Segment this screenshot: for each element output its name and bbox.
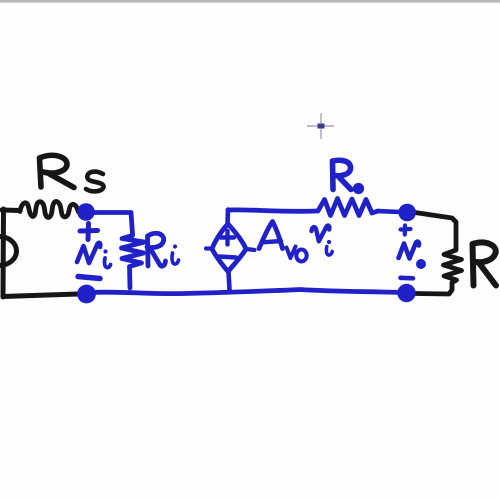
wire output node to load R	[415, 213, 456, 250]
wire bottom rail	[90, 290, 402, 294]
wire input node to Ri	[88, 213, 133, 235]
node input bottom (junction source / vi- / rail)	[77, 285, 96, 304]
label Ri subscript "i"	[172, 244, 178, 264]
node output top (junction Ro / vo+ / R load)	[398, 204, 416, 222]
node output bottom (junction rail / vo- / R load)	[397, 284, 415, 302]
resistor R load (vertical zigzag)	[444, 250, 462, 290]
wire input left vertical	[1, 209, 7, 297]
label vi minus sign	[78, 277, 100, 279]
label vo subscript dot	[416, 259, 426, 269]
wire input bottom (source to node)	[3, 294, 78, 297]
resistor Ro (horizontal zigzag)	[318, 199, 378, 216]
label vi "v"	[77, 243, 100, 263]
label Rs subscript "s"	[86, 172, 104, 192]
wire Ro to output node	[378, 211, 400, 212]
node input top (junction Rs / vi+ / Ri)	[77, 203, 95, 221]
wire diamond bottom stem	[229, 272, 230, 291]
label Avo subscript "v"	[287, 247, 296, 259]
dependent source minus sign	[219, 257, 236, 258]
dependent source plus sign	[221, 231, 234, 245]
label vi subscript "i"	[103, 249, 110, 267]
dependent source E1 diamond body	[212, 224, 246, 272]
wire top rail to Ro	[228, 210, 317, 212]
label Rs "R"	[40, 155, 75, 187]
label Avo "A"	[259, 222, 283, 249]
label Ri "R"	[147, 233, 166, 266]
label vi (controlling voltage) subscript "i"	[326, 240, 332, 255]
resistor Ri (vertical zigzag)	[122, 236, 145, 289]
label R (load)	[473, 242, 497, 285]
label vo plus sign	[401, 226, 411, 235]
cursor crosshair	[307, 113, 334, 139]
label Ro subscript dot	[353, 183, 364, 194]
label vi (controlling voltage) "v"	[312, 226, 330, 242]
dependent source right tick	[247, 249, 255, 250]
label vi plus sign	[80, 224, 98, 240]
resistor Rs	[20, 202, 79, 218]
dependent source left tick	[206, 246, 213, 250]
label Avo subscript "o"	[296, 250, 306, 262]
label Ro "R"	[333, 160, 352, 189]
label vo minus sign	[401, 275, 414, 280]
wire load R bottom to output node	[415, 290, 452, 294]
wire input top (source to Rs)	[2, 208, 20, 214]
source VS (circle, cut by left edge)	[0, 237, 17, 266]
label vo "v"	[399, 242, 419, 259]
wire diamond top stem	[225, 210, 230, 225]
